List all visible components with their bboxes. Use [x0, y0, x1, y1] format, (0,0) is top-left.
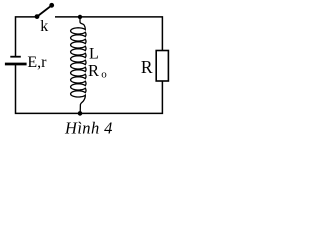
- resistor R box: [156, 51, 168, 82]
- switch k pivot dot: [35, 14, 40, 19]
- switch k end dot: [49, 3, 54, 8]
- node: junction dot at bottom of coil branch: [78, 111, 83, 116]
- svg-text:E,r: E,r: [27, 54, 47, 71]
- wire: top-right segment and right wire upper part: [55, 17, 162, 51]
- node: junction dot at top of coil branch: [78, 15, 82, 19]
- svg-text:R: R: [141, 57, 153, 77]
- wire: top-left segment and left wire upper part: [16, 17, 38, 57]
- wire: left lower, bottom, right lower: [16, 64, 163, 113]
- svg-text:o: o: [101, 69, 107, 81]
- svg-text:k: k: [40, 18, 48, 35]
- svg-text:R: R: [88, 61, 99, 80]
- inductor coil L,Ro: [71, 17, 86, 114]
- battery E,r long plate: [5, 63, 27, 66]
- svg-text:Hình 4: Hình 4: [64, 119, 113, 138]
- switch k blade: [37, 6, 52, 17]
- battery E,r short plate: [10, 56, 20, 58]
